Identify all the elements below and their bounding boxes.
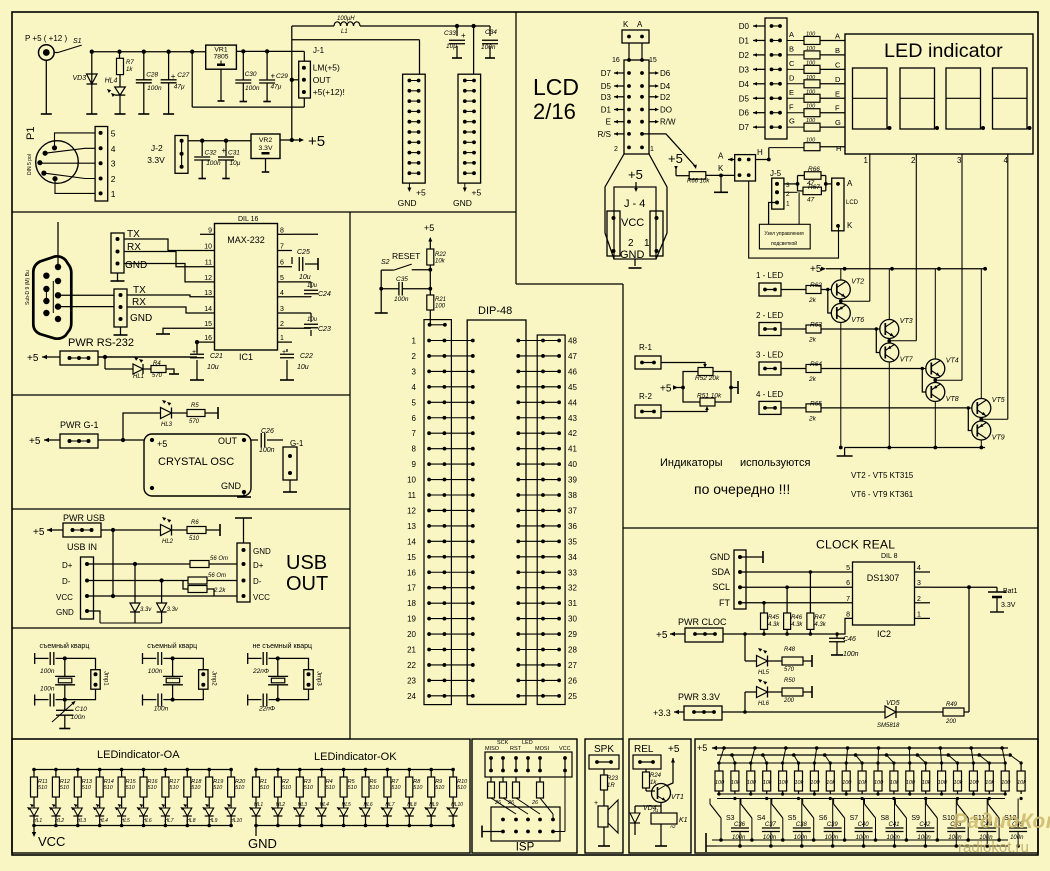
- svg-text:+5: +5: [416, 187, 426, 197]
- svg-text:26: 26: [568, 676, 577, 685]
- svg-text:G: G: [789, 117, 795, 126]
- svg-text:C32: C32: [205, 150, 217, 157]
- svg-text:SPK: SPK: [594, 744, 614, 755]
- svg-text:HL6: HL6: [758, 701, 770, 707]
- svg-text:VT2 - VT5 KT315: VT2 - VT5 KT315: [851, 471, 914, 480]
- svg-text:R-2: R-2: [639, 392, 652, 401]
- svg-text:VT3: VT3: [900, 318, 913, 325]
- svg-text:4: 4: [412, 383, 417, 392]
- svg-text:200: 200: [945, 719, 957, 725]
- svg-text:IC1: IC1: [239, 352, 253, 362]
- svg-text:D-: D-: [253, 577, 262, 586]
- svg-text:4: 4: [280, 290, 284, 297]
- svg-text:+: +: [171, 72, 176, 81]
- svg-text:H: H: [757, 148, 763, 157]
- svg-text:9: 9: [412, 460, 417, 469]
- svg-text:IC2: IC2: [877, 629, 891, 639]
- svg-text:22: 22: [407, 661, 416, 670]
- svg-text:2k: 2k: [808, 415, 817, 422]
- svg-text:LED: LED: [522, 740, 533, 746]
- svg-text:40: 40: [568, 460, 577, 469]
- svg-text:100: 100: [806, 75, 816, 81]
- svg-text:FT: FT: [719, 598, 730, 608]
- svg-text:R24: R24: [650, 773, 662, 779]
- svg-text:R45: R45: [768, 615, 780, 621]
- svg-text:R63: R63: [810, 322, 822, 329]
- svg-text:LCD: LCD: [533, 74, 579, 100]
- svg-text:47: 47: [568, 352, 577, 361]
- svg-text:6: 6: [846, 580, 850, 587]
- svg-text:DO: DO: [660, 106, 672, 115]
- svg-text:A: A: [835, 31, 840, 40]
- svg-text:VT4: VT4: [946, 358, 959, 365]
- svg-text:MAX-232: MAX-232: [227, 235, 265, 245]
- svg-text:HL4: HL4: [105, 78, 118, 85]
- svg-text:1: 1: [786, 201, 790, 208]
- svg-text:D+: D+: [253, 561, 264, 570]
- svg-text:K: K: [623, 20, 629, 29]
- svg-text:4.3k: 4.3k: [791, 622, 803, 628]
- svg-text:L1: L1: [341, 29, 348, 35]
- svg-text:VT9: VT9: [992, 435, 1005, 442]
- svg-text:VT6 - VT9 KT361: VT6 - VT9 KT361: [851, 490, 914, 499]
- svg-text:USB: USB: [286, 552, 327, 574]
- svg-text:12: 12: [204, 275, 212, 282]
- svg-text:510: 510: [370, 785, 380, 791]
- svg-text:10k: 10k: [954, 780, 963, 786]
- svg-text:R47: R47: [814, 615, 826, 621]
- svg-text:22пФ: 22пФ: [252, 668, 269, 675]
- svg-text:R62: R62: [810, 282, 822, 289]
- svg-text:44: 44: [568, 398, 577, 407]
- svg-text:R50: R50: [784, 678, 796, 684]
- svg-text:2: 2: [280, 321, 284, 328]
- svg-text:100: 100: [747, 780, 757, 786]
- svg-text:C28: C28: [146, 72, 158, 79]
- svg-text:39: 39: [568, 476, 577, 485]
- svg-text:32: 32: [568, 584, 577, 593]
- svg-text:2: 2: [614, 146, 618, 153]
- svg-text:2k: 2k: [808, 297, 817, 304]
- svg-text:D: D: [789, 73, 795, 82]
- svg-text:radiokot.ru: radiokot.ru: [958, 839, 1029, 856]
- svg-text:14: 14: [407, 537, 416, 546]
- svg-text:+: +: [222, 146, 227, 155]
- svg-text:1: 1: [644, 238, 650, 249]
- svg-text:11: 11: [205, 260, 212, 267]
- svg-text:D5: D5: [739, 94, 750, 103]
- svg-text:VT7: VT7: [900, 357, 914, 364]
- svg-text:13: 13: [204, 290, 212, 297]
- svg-text:37: 37: [568, 506, 577, 515]
- svg-text:J - 4: J - 4: [624, 198, 645, 210]
- svg-text:7: 7: [412, 429, 417, 438]
- svg-text:20: 20: [407, 630, 416, 639]
- svg-text:LEDindicator-OA: LEDindicator-OA: [97, 749, 180, 761]
- svg-text:LED indicator: LED indicator: [884, 40, 1003, 62]
- svg-text:S8: S8: [881, 815, 890, 822]
- svg-text:+: +: [192, 349, 196, 356]
- svg-text:510: 510: [82, 785, 92, 791]
- svg-text:D: D: [835, 75, 841, 84]
- svg-text:16: 16: [407, 568, 416, 577]
- svg-text:R/W: R/W: [660, 118, 676, 127]
- svg-text:+5: +5: [27, 353, 39, 364]
- svg-text:510: 510: [348, 785, 358, 791]
- svg-text:C41: C41: [889, 822, 900, 828]
- svg-text:C22: C22: [300, 353, 313, 360]
- svg-text:10: 10: [204, 244, 212, 251]
- svg-text:26: 26: [531, 800, 539, 806]
- svg-text:3 - LED: 3 - LED: [756, 350, 783, 359]
- svg-text:R66 10k: R66 10k: [687, 179, 710, 185]
- svg-text:GND: GND: [221, 481, 242, 491]
- svg-text:C27: C27: [177, 72, 189, 79]
- svg-text:HL10: HL10: [230, 818, 242, 824]
- svg-text:S2: S2: [381, 259, 390, 266]
- svg-text:D+: D+: [62, 561, 73, 570]
- svg-text:100n: 100n: [40, 686, 55, 693]
- svg-text:DS1307: DS1307: [867, 573, 900, 583]
- svg-text:LCD: LCD: [846, 200, 859, 206]
- svg-text:46: 46: [568, 367, 577, 376]
- svg-text:D3: D3: [601, 93, 612, 102]
- svg-text:12: 12: [407, 506, 416, 515]
- svg-text:F: F: [835, 104, 840, 113]
- svg-text:S4: S4: [757, 815, 766, 822]
- svg-text:510: 510: [189, 536, 200, 542]
- svg-text:100n: 100n: [40, 668, 55, 675]
- svg-text:48: 48: [568, 337, 577, 346]
- svg-text:GND: GND: [253, 547, 271, 556]
- svg-text:R51 10k: R51 10k: [697, 393, 722, 400]
- svg-text:510: 510: [213, 785, 223, 791]
- svg-text:1: 1: [111, 189, 116, 199]
- svg-text:100n: 100n: [259, 447, 275, 454]
- svg-text:100: 100: [842, 780, 852, 786]
- svg-text:PWR RS-232: PWR RS-232: [68, 337, 134, 349]
- svg-text:570: 570: [189, 419, 200, 425]
- svg-text:C: C: [789, 59, 795, 68]
- svg-text:100: 100: [874, 780, 884, 786]
- svg-text:+5: +5: [810, 264, 822, 275]
- svg-text:RX: RX: [132, 297, 146, 308]
- svg-text:13: 13: [407, 522, 416, 531]
- svg-text:510: 510: [191, 785, 201, 791]
- svg-text:HL4: HL4: [320, 802, 329, 808]
- svg-text:27: 27: [568, 661, 577, 670]
- svg-text:+5: +5: [157, 439, 167, 449]
- svg-text:23: 23: [407, 676, 416, 685]
- svg-text:100: 100: [806, 60, 816, 66]
- svg-text:47μ: 47μ: [174, 83, 185, 90]
- svg-text:R23: R23: [607, 776, 619, 782]
- svg-text:38: 38: [568, 491, 577, 500]
- svg-text:2: 2: [628, 238, 634, 249]
- svg-text:25: 25: [568, 692, 577, 701]
- svg-text:2: 2: [917, 596, 921, 603]
- svg-text:D0: D0: [739, 22, 750, 31]
- svg-text:100: 100: [806, 104, 816, 110]
- svg-text:14: 14: [204, 306, 212, 313]
- svg-text:R65: R65: [810, 400, 822, 407]
- svg-text:36: 36: [568, 522, 577, 531]
- svg-text:R4: R4: [153, 361, 161, 367]
- svg-text:OUT: OUT: [313, 75, 331, 85]
- svg-text:LM(+5): LM(+5): [313, 63, 340, 73]
- svg-text:7: 7: [280, 244, 284, 251]
- svg-text:R7: R7: [126, 60, 134, 66]
- svg-text:DIN 5 pol: DIN 5 pol: [27, 154, 33, 175]
- svg-text:C26: C26: [261, 428, 274, 435]
- svg-text:C40: C40: [858, 822, 870, 828]
- svg-text:10u: 10u: [297, 364, 309, 371]
- svg-text:GND: GND: [398, 198, 417, 208]
- svg-text:17: 17: [407, 584, 416, 593]
- svg-text:S9: S9: [911, 815, 920, 822]
- svg-text:100n: 100n: [154, 706, 169, 713]
- svg-text:11: 11: [408, 491, 417, 500]
- svg-text:D1: D1: [601, 106, 612, 115]
- svg-text:C46: C46: [843, 636, 856, 643]
- svg-text:HL3: HL3: [298, 802, 307, 808]
- svg-text:R52 20k: R52 20k: [695, 375, 720, 382]
- svg-text:ISP: ISP: [516, 842, 535, 854]
- svg-text:Jmp1: Jmp1: [103, 671, 109, 686]
- svg-text:HL9: HL9: [429, 802, 438, 808]
- svg-text:4 - LED: 4 - LED: [756, 390, 783, 399]
- svg-text:E: E: [835, 89, 840, 98]
- svg-text:510: 510: [282, 785, 292, 791]
- svg-text:47: 47: [807, 197, 815, 204]
- svg-text:100: 100: [806, 138, 816, 144]
- svg-text:100n: 100n: [206, 160, 221, 167]
- svg-text:16: 16: [204, 335, 212, 342]
- svg-text:по очередно !!!: по очередно !!!: [694, 481, 790, 497]
- svg-text:510: 510: [304, 785, 314, 791]
- svg-text:B: B: [835, 46, 840, 55]
- svg-text:H: H: [836, 144, 841, 153]
- svg-text:РадиоКот: РадиоКот: [953, 810, 1050, 833]
- svg-text:C10: C10: [75, 706, 87, 713]
- svg-text:510: 510: [391, 785, 401, 791]
- svg-text:S7: S7: [850, 815, 859, 822]
- svg-text:10u: 10u: [307, 317, 318, 323]
- svg-text:+5: +5: [29, 436, 41, 447]
- svg-text:D2: D2: [739, 51, 750, 60]
- svg-text:REL: REL: [634, 744, 654, 755]
- svg-text:10k: 10k: [890, 780, 899, 786]
- svg-text:D4: D4: [739, 80, 750, 89]
- svg-text:+5: +5: [668, 151, 683, 166]
- svg-text:8: 8: [280, 227, 284, 234]
- svg-text:10k: 10k: [435, 259, 446, 265]
- svg-text:J-1: J-1: [313, 46, 325, 55]
- svg-text:VCC: VCC: [38, 834, 65, 849]
- svg-text:GND: GND: [248, 836, 277, 851]
- svg-text:510: 510: [435, 785, 445, 791]
- svg-text:1: 1: [650, 146, 654, 153]
- svg-text:7: 7: [846, 596, 850, 603]
- svg-text:2/16: 2/16: [533, 99, 576, 124]
- svg-text:D3: D3: [739, 65, 750, 74]
- svg-text:28: 28: [568, 646, 577, 655]
- svg-text:100: 100: [806, 31, 816, 37]
- svg-text:510: 510: [413, 785, 423, 791]
- svg-text:K: K: [718, 164, 724, 173]
- svg-text:RST: RST: [510, 746, 522, 752]
- svg-text:GND: GND: [56, 608, 74, 617]
- svg-text:A: A: [718, 152, 724, 161]
- svg-text:24: 24: [407, 692, 416, 701]
- svg-text:10k: 10k: [795, 780, 804, 786]
- svg-text:100n: 100n: [245, 85, 260, 92]
- svg-text:D5: D5: [601, 82, 612, 91]
- svg-text:D-: D-: [62, 577, 71, 586]
- svg-text:TX: TX: [127, 229, 140, 240]
- svg-text:5: 5: [846, 565, 850, 572]
- svg-text:VT2: VT2: [851, 279, 864, 286]
- svg-text:29: 29: [568, 630, 577, 639]
- svg-text:SM5818: SM5818: [877, 723, 900, 729]
- svg-text:34: 34: [568, 553, 577, 562]
- svg-text:E: E: [789, 88, 794, 97]
- svg-text:100n: 100n: [394, 296, 409, 303]
- svg-text:P1: P1: [25, 127, 37, 140]
- svg-text:C38: C38: [796, 822, 808, 828]
- svg-text:10μ: 10μ: [230, 160, 241, 167]
- svg-text:VD3: VD3: [73, 75, 87, 82]
- svg-text:10k: 10k: [858, 780, 867, 786]
- svg-text:B: B: [789, 44, 794, 53]
- svg-text:15: 15: [649, 57, 657, 64]
- svg-text:C23: C23: [318, 326, 331, 333]
- svg-text:HL1: HL1: [254, 802, 263, 808]
- svg-text:510: 510: [260, 785, 270, 791]
- svg-text:D7: D7: [601, 69, 612, 78]
- svg-text:TX: TX: [133, 285, 146, 296]
- svg-text:10u: 10u: [207, 364, 219, 371]
- svg-text:C34: C34: [485, 29, 497, 36]
- svg-text:1R: 1R: [607, 783, 615, 789]
- svg-text:R22: R22: [435, 252, 447, 258]
- svg-text:+5: +5: [33, 527, 45, 538]
- svg-text:100: 100: [969, 780, 979, 786]
- svg-text:510: 510: [235, 785, 245, 791]
- svg-text:10k: 10k: [922, 780, 931, 786]
- svg-text:Sub-D 9 (M) Bu: Sub-D 9 (M) Bu: [25, 270, 31, 305]
- svg-text:16: 16: [612, 57, 620, 64]
- svg-text:G: G: [835, 118, 841, 127]
- svg-text:8: 8: [412, 445, 417, 454]
- svg-text:C30: C30: [245, 71, 257, 78]
- svg-text:Jmp2: Jmp2: [210, 671, 216, 686]
- svg-text:PWR CLOC: PWR CLOC: [678, 617, 727, 627]
- svg-text:200: 200: [783, 698, 795, 704]
- svg-text:OUT: OUT: [286, 573, 328, 595]
- svg-text:Bat1: Bat1: [1003, 588, 1018, 595]
- svg-text:R46: R46: [791, 615, 803, 621]
- svg-text:PWR G-1: PWR G-1: [60, 420, 99, 430]
- svg-text:4: 4: [111, 144, 116, 154]
- svg-text:HL5: HL5: [758, 670, 770, 676]
- svg-text:D1: D1: [739, 36, 750, 45]
- svg-text:+5: +5: [628, 167, 643, 182]
- svg-text:A1: A1: [652, 808, 659, 813]
- svg-text:HL6: HL6: [364, 802, 373, 808]
- svg-text:+: +: [271, 71, 276, 80]
- svg-text:+5: +5: [424, 223, 434, 233]
- svg-text:C31: C31: [228, 150, 240, 157]
- svg-text:D7: D7: [739, 123, 750, 132]
- svg-text:3.3V: 3.3V: [259, 145, 273, 152]
- svg-text:100: 100: [906, 780, 916, 786]
- svg-text:VCC: VCC: [621, 217, 644, 229]
- svg-text:C39: C39: [827, 822, 839, 828]
- svg-text:A2: A2: [669, 824, 676, 829]
- svg-text:1 - LED: 1 - LED: [756, 271, 783, 280]
- svg-text:MOSI: MOSI: [535, 746, 550, 752]
- svg-text:PWR 3.3V: PWR 3.3V: [678, 692, 720, 702]
- svg-text:VT1: VT1: [671, 794, 684, 801]
- svg-text:2k: 2k: [808, 376, 817, 383]
- svg-text:3: 3: [280, 306, 284, 313]
- svg-text:съемный кварц: съемный кварц: [40, 642, 90, 650]
- svg-text:4.3k: 4.3k: [814, 622, 826, 628]
- svg-text:R/S: R/S: [598, 130, 611, 139]
- svg-text:R5: R5: [191, 403, 199, 409]
- svg-text:HL7: HL7: [385, 802, 394, 808]
- svg-text:HL10: HL10: [451, 802, 463, 808]
- svg-text:SDA: SDA: [711, 567, 730, 577]
- svg-text:A: A: [847, 179, 853, 188]
- svg-text:HL2: HL2: [276, 802, 285, 808]
- svg-text:47μ: 47μ: [271, 84, 282, 91]
- svg-text:A: A: [789, 30, 794, 39]
- svg-text:+: +: [282, 349, 286, 356]
- svg-text:VR1: VR1: [214, 47, 227, 54]
- svg-text:C36: C36: [734, 822, 746, 828]
- svg-text:S5: S5: [788, 815, 797, 822]
- svg-text:DIL 16: DIL 16: [238, 216, 258, 223]
- svg-text:1: 1: [917, 611, 921, 618]
- svg-text:RESET: RESET: [392, 251, 420, 261]
- svg-text:100: 100: [1001, 780, 1011, 786]
- svg-text:+: +: [461, 31, 466, 40]
- svg-text:VCC: VCC: [559, 746, 571, 752]
- svg-text:S3: S3: [726, 815, 735, 822]
- svg-text:8: 8: [846, 611, 850, 618]
- svg-text:3.3V: 3.3V: [1001, 602, 1016, 609]
- svg-text:GND: GND: [453, 198, 472, 208]
- svg-text:VR2: VR2: [259, 137, 272, 144]
- svg-text:R49: R49: [946, 702, 958, 708]
- svg-text:2.2k: 2.2k: [213, 588, 226, 594]
- svg-text:3.3V: 3.3V: [147, 155, 165, 165]
- svg-text:J-5: J-5: [770, 169, 782, 178]
- svg-text:R48: R48: [784, 647, 796, 653]
- svg-text:10u: 10u: [299, 274, 311, 281]
- svg-text:3: 3: [917, 580, 921, 587]
- svg-text:100: 100: [715, 780, 725, 786]
- svg-text:19: 19: [407, 615, 416, 624]
- svg-text:D6: D6: [739, 109, 750, 118]
- svg-text:43: 43: [568, 414, 577, 423]
- svg-text:VD5: VD5: [886, 700, 900, 707]
- svg-text:15: 15: [204, 321, 212, 328]
- svg-text:MISO: MISO: [485, 746, 500, 752]
- svg-text:P +5 ( +12 ): P +5 ( +12 ): [25, 34, 67, 43]
